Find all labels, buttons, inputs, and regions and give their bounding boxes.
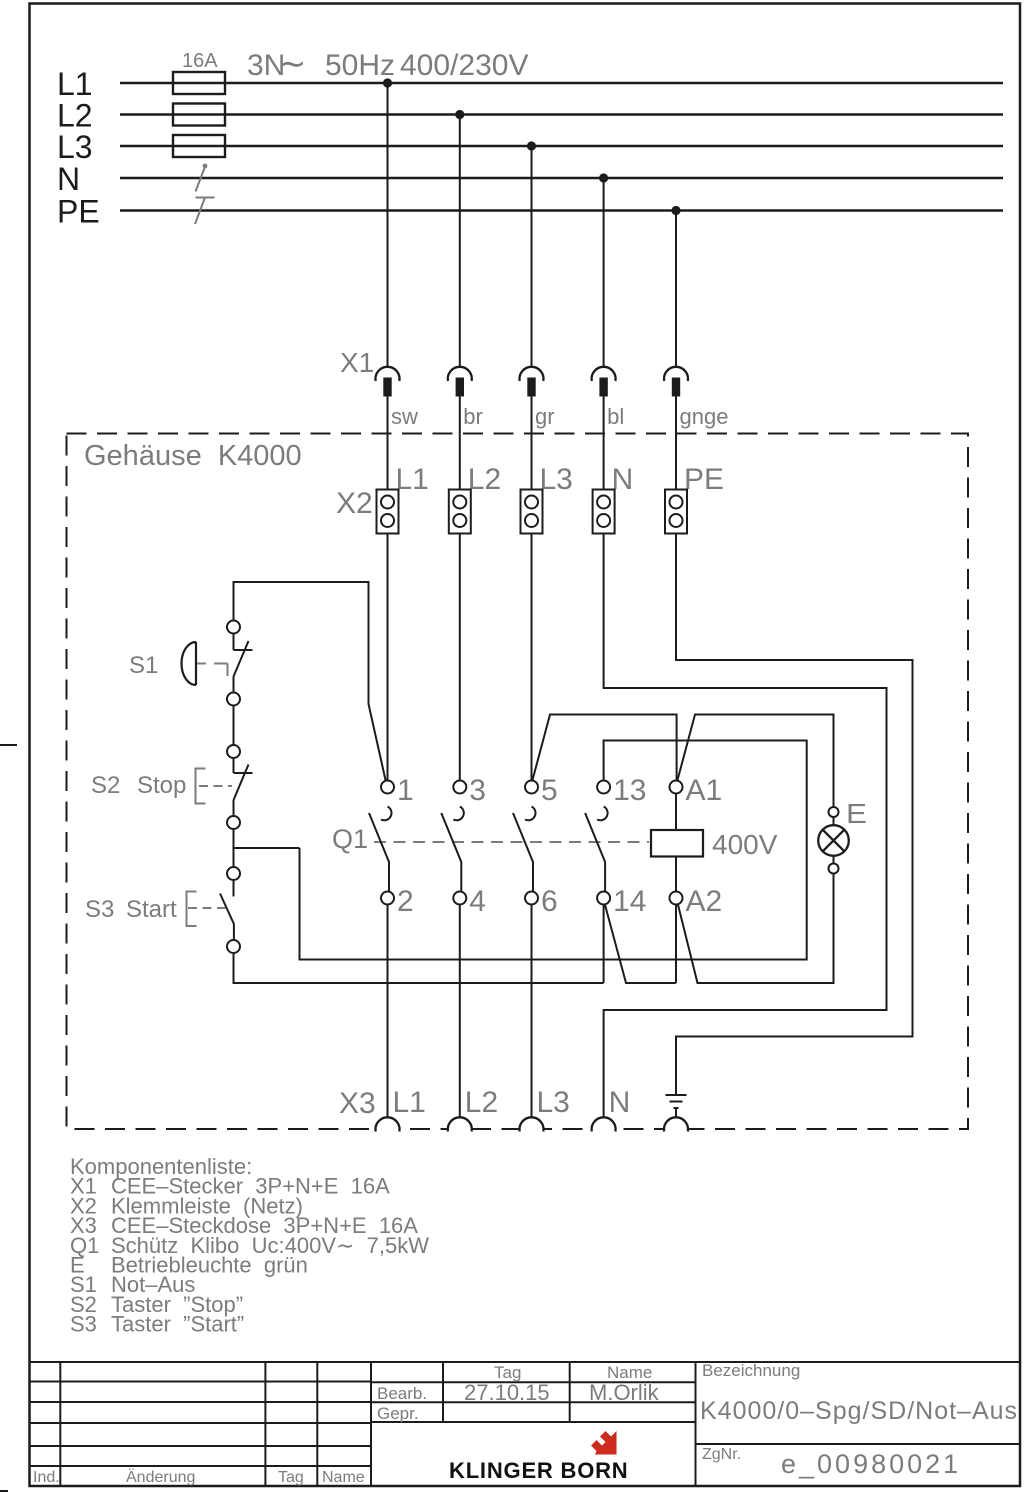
svg-text:A2: A2 — [686, 885, 723, 918]
enclosure Gehaeuse K4000 dashed boundary — [67, 434, 969, 1130]
fold mark bottom — [0, 1490, 8, 1492]
wire L3 X2 to contact 5 — [531, 534, 533, 781]
svg-text:X2: X2 — [336, 487, 373, 520]
svg-text:S3: S3 — [70, 1312, 97, 1337]
Q1 terminal 3 — [453, 781, 466, 794]
svg-text:3N∼50Hz400/230V: 3N∼50Hz400/230V — [247, 45, 528, 83]
svg-text:PE: PE — [684, 463, 724, 496]
N isolation point mark — [196, 164, 208, 192]
connector X3 pin N — [592, 1117, 616, 1131]
svg-text:Q1: Q1 — [332, 824, 368, 854]
wire drop L3 to X1 — [531, 146, 533, 367]
svg-text:N: N — [57, 161, 80, 197]
emergency stop S1 (Not-Aus) NC contact — [227, 621, 253, 706]
wire bus N — [120, 177, 1003, 180]
svg-text:M.Orlik: M.Orlik — [589, 1380, 660, 1405]
connector X1 pin L2 — [448, 367, 472, 381]
Q1 terminal 4 — [453, 892, 466, 905]
svg-text:L1: L1 — [393, 1086, 426, 1119]
svg-text:16A: 16A — [182, 50, 218, 72]
wire X1 to X2 (bl) — [603, 397, 605, 490]
wire A2 to lamp E bottom — [678, 874, 834, 984]
svg-text:e_00980021: e_00980021 — [781, 1449, 961, 1479]
svg-text:14: 14 — [613, 885, 646, 918]
Q1 terminal A2 — [670, 892, 683, 905]
svg-text:L3: L3 — [537, 1086, 570, 1119]
svg-text:L2: L2 — [465, 1086, 498, 1119]
svg-text:L3: L3 — [57, 129, 93, 165]
svg-text:K4000/0–Spg/SD/Not–Aus: K4000/0–Spg/SD/Not–Aus — [700, 1397, 1018, 1425]
svg-text:L2: L2 — [468, 463, 501, 496]
svg-text:Taster ”Start”: Taster ”Start” — [111, 1312, 244, 1337]
svg-text:1: 1 — [397, 774, 414, 807]
svg-text:400V: 400V — [712, 829, 778, 860]
wire control tap from contact 1 to S1 — [234, 582, 386, 780]
fuse F1 — [173, 72, 225, 94]
Q1 pole contact 3/4 — [453, 807, 464, 821]
wire drop PE to X1 — [675, 211, 677, 368]
svg-text:Start: Start — [126, 896, 177, 923]
svg-text:PE: PE — [57, 194, 100, 230]
terminal X2:PE — [665, 490, 687, 534]
wire X1 to X2 (gr) — [531, 397, 533, 490]
wire drop L1 to X1 — [387, 83, 389, 367]
wire coil to A2 — [675, 857, 677, 892]
wire contact 5 to A1 — [533, 715, 677, 781]
connector X3 pin L3 — [520, 1117, 544, 1131]
svg-text:S1: S1 — [129, 652, 158, 679]
svg-text:Stop: Stop — [137, 772, 186, 799]
title block grid — [30, 1362, 1021, 1486]
Q1 terminal 1 — [381, 781, 394, 794]
wire A2 down — [675, 905, 677, 984]
svg-text:A1: A1 — [686, 774, 723, 807]
svg-text:27.10.15: 27.10.15 — [464, 1380, 550, 1405]
Q1 terminal A1 — [670, 781, 683, 794]
Q1 terminal 6 — [525, 892, 538, 905]
Q1 terminal 2 — [381, 892, 394, 905]
svg-text:2: 2 — [397, 885, 414, 918]
connector X3 pin PE — [664, 1117, 688, 1131]
S3 actuator bracket and link — [187, 892, 226, 927]
svg-text:br: br — [463, 404, 483, 429]
ground symbol PE — [666, 1095, 687, 1118]
svg-text:bl: bl — [607, 404, 624, 429]
wire drop N to X1 — [603, 178, 605, 367]
wire N bypass routing — [604, 534, 887, 1118]
svg-text:S3: S3 — [85, 896, 114, 923]
svg-text:6: 6 — [541, 885, 558, 918]
svg-text:ZgNr.: ZgNr. — [702, 1446, 741, 1463]
svg-text:Gehäuse K4000: Gehäuse K4000 — [84, 440, 302, 472]
connector X1 pin PE — [664, 367, 688, 381]
wire bus PE — [120, 209, 1003, 212]
svg-text:3: 3 — [469, 774, 486, 807]
svg-text:KLINGER BORN: KLINGER BORN — [449, 1458, 629, 1483]
terminal X2:L2 — [449, 490, 471, 534]
stop button S2 NC contact — [227, 745, 253, 829]
svg-text:Name: Name — [322, 1469, 365, 1486]
svg-text:Gepr.: Gepr. — [377, 1404, 419, 1423]
S2 actuator bracket and link — [196, 769, 233, 804]
wire 14 to A2 — [605, 904, 676, 983]
Q1 terminal 14 — [597, 892, 610, 905]
S1 mushroom head actuator — [182, 642, 197, 685]
fuse F3 — [173, 135, 225, 157]
connector X1 pin L3 — [520, 367, 544, 381]
wire bus L2 — [120, 113, 1003, 116]
svg-text:gr: gr — [535, 404, 555, 429]
wire A1 to coil — [675, 794, 677, 831]
connector X1 pin L1 — [376, 367, 400, 381]
svg-text:4: 4 — [469, 885, 486, 918]
Q1 terminal 5 — [525, 781, 538, 794]
svg-text:L3: L3 — [540, 463, 573, 496]
Q1 pole contact 1/2 — [381, 807, 392, 821]
wire X1 to X2 (gnge) — [675, 397, 677, 490]
PE isolation point mark — [195, 198, 215, 225]
connector X3 pin L1 — [376, 1117, 400, 1131]
Q1 mechanical link dashed — [374, 841, 649, 843]
coil Q1 (A1-A2) — [651, 830, 703, 857]
Q1 pole contact 5/6 — [525, 807, 536, 821]
wire X1 to X2 (sw) — [387, 397, 389, 490]
wire S3 bottom to contact 14 — [234, 953, 604, 983]
svg-text:E: E — [846, 798, 867, 829]
fold mark left — [0, 744, 17, 746]
node junction N tap — [599, 173, 608, 182]
connector X1 pin N — [592, 367, 616, 381]
connector X3 pin L2 — [448, 1117, 472, 1131]
KLINGER BORN logo red arrow icon — [591, 1431, 617, 1455]
node junction PE tap — [671, 206, 680, 215]
wire S1 to S2 — [233, 706, 235, 746]
svg-text:gnge: gnge — [680, 404, 729, 429]
S1 mechanical link dashed — [197, 664, 228, 677]
lamp E (Betriebleuchte) — [818, 807, 849, 874]
svg-text:sw: sw — [391, 404, 418, 429]
wire contact 6 to X3 L3 — [531, 905, 533, 1118]
wire A1 to lamp E — [678, 715, 834, 808]
wire contact 2 to X3 L1 — [387, 905, 389, 1118]
wire bus L1 — [120, 82, 1003, 85]
wire S2 to S3 with latch branch node — [234, 829, 300, 867]
svg-text:Ind.: Ind. — [33, 1469, 60, 1486]
wire contact 4 to X3 L2 — [459, 905, 461, 1118]
svg-text:L1: L1 — [396, 463, 429, 496]
wire L2 X2 to contact 3 — [459, 534, 461, 781]
svg-text:Tag: Tag — [278, 1469, 304, 1486]
wire 14 down — [603, 905, 605, 984]
node junction L1 tap — [383, 78, 392, 87]
Q1 terminal 13 — [597, 781, 610, 794]
svg-text:13: 13 — [613, 774, 646, 807]
svg-text:Bearb.: Bearb. — [377, 1384, 427, 1403]
svg-text:X1: X1 — [340, 347, 374, 378]
start button S3 NO contact — [220, 867, 240, 953]
Q1 pole contact 13/14 — [597, 807, 608, 821]
fuse F2 — [173, 104, 225, 126]
wire latch: node to contact 13 — [300, 741, 807, 960]
component list text block — [70, 1154, 429, 1337]
wire X1 to X2 (br) — [459, 397, 461, 490]
svg-text:X3: X3 — [339, 1087, 376, 1120]
wire bus L3 — [120, 145, 1003, 148]
svg-text:S2: S2 — [91, 772, 120, 799]
svg-text:Änderung: Änderung — [126, 1468, 195, 1486]
svg-text:Bezeichnung: Bezeichnung — [702, 1361, 800, 1380]
wire drop L2 to X1 — [459, 115, 461, 368]
svg-text:N: N — [609, 1086, 631, 1119]
terminal X2:L3 — [521, 490, 543, 534]
svg-text:5: 5 — [541, 774, 558, 807]
wire L1 X2 to contact 1 — [387, 534, 389, 781]
node junction L2 tap — [455, 110, 464, 119]
node junction L3 tap — [527, 141, 536, 150]
wire PE bypass routing — [676, 534, 913, 1096]
terminal X2:N — [593, 490, 615, 534]
terminal X2:L1 — [377, 490, 399, 534]
